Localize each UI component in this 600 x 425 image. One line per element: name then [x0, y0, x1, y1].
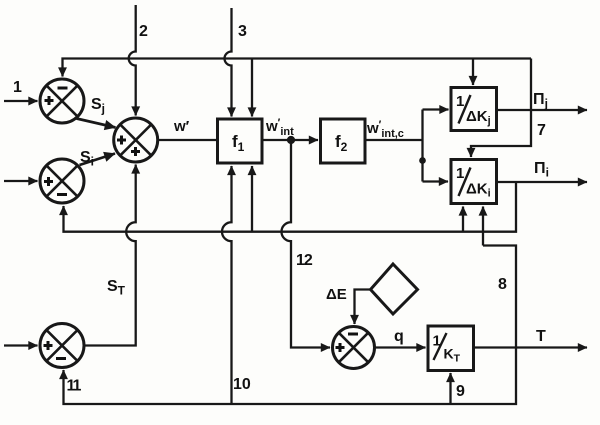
svg-text:12: 12 [296, 252, 313, 269]
wire: input line 3 with hop over bus into f1 top [225, 8, 232, 117]
diamond shape [371, 264, 418, 314]
svg-text:10: 10 [233, 376, 251, 393]
wire: line 10 from bottom bus with hop into f1 bottom [222, 166, 232, 404]
svg-text:7: 7 [537, 122, 546, 139]
node: small dot on branch vertical [420, 158, 424, 162]
wire: Pi_i feedback branch down, left along y=231.7 and up into S2 bottom [64, 182, 517, 232]
summing junction S1 (inputs 1, bus; output Sj) [40, 79, 84, 123]
wire: input arrow into summing junction S2 [4, 180, 38, 182]
svg-text:T: T [536, 328, 546, 345]
wire: top feedback bus with arrow into summing junction S1 [63, 59, 532, 77]
svg-text:w′int,c: w′int,c [366, 119, 404, 140]
svg-text:1: 1 [13, 79, 22, 96]
wire: line 12 from w'int dot down with hop into q junction [282, 140, 331, 348]
wire: T output arrow [474, 346, 588, 348]
svg-text:2: 2 [139, 23, 148, 40]
svg-text:q: q [394, 328, 404, 345]
summing junction S5 q (inputs 12, delta-E; output q) [333, 327, 375, 369]
wire: line 9 arrow up into 1/KT bottom [449, 373, 451, 404]
wire: branch arrow into 1/dKj left [423, 108, 449, 110]
wire: f1 output to f2 [262, 139, 318, 141]
block f2 [321, 119, 366, 163]
block 1/dKj [451, 88, 497, 131]
summing junction S2 (inputs left, feedback; output Si) [40, 159, 84, 203]
svg-text:11: 11 [67, 378, 82, 395]
wire: line 7 from bus down into 1/dKi top [471, 59, 531, 158]
node: junction dot on w'int line [288, 137, 294, 143]
svg-text:Sj: Sj [91, 96, 105, 116]
wire: tap up from feedback line into 1/dKi bottom [462, 207, 464, 232]
svg-text:9: 9 [456, 383, 465, 400]
svg-text:ΔE: ΔE [326, 286, 347, 303]
wire: f2 output w'int,c to branch [365, 139, 423, 141]
wire: q junction output to 1/KT [375, 346, 426, 348]
svg-text:Πi: Πi [534, 160, 549, 180]
wire: central junction output w' to f1 [158, 139, 217, 141]
svg-text:3: 3 [238, 23, 247, 40]
block 1/dKi [451, 160, 497, 204]
svg-text:w′int: w′int [265, 117, 294, 138]
svg-text:ΔKi: ΔKi [466, 181, 491, 200]
wire: branch arrow into 1/dKi left [423, 180, 449, 182]
wire: bus tap into 1/dKj top [472, 59, 474, 86]
summing junction S4 (inputs left, 11; output ST) [40, 324, 84, 368]
summing junction S3 central (inputs 2, Sj, Si, ST; output w') [114, 118, 158, 162]
wire: tap up from feedback line into f1 bottom [251, 166, 253, 232]
svg-text:8: 8 [498, 276, 507, 293]
wire: Sj arrow from S1 to central junction [77, 119, 116, 128]
svg-text:Si: Si [80, 149, 94, 169]
svg-text:ST: ST [107, 278, 126, 298]
wire: line 8 arrow up into 1/dKi bottom [482, 207, 484, 246]
wire: input line 2 with hop over bus into central summing junction [129, 5, 136, 116]
wire: ST line from S4 output up with hop into central junction bottom [84, 165, 136, 346]
block f1 [218, 119, 263, 163]
svg-text:w′: w′ [173, 118, 190, 135]
wire: branch vertical [421, 110, 423, 182]
svg-text:Πj: Πj [533, 91, 548, 111]
svg-text:1: 1 [456, 93, 464, 110]
svg-text:ΔKj: ΔKj [466, 108, 491, 127]
wire: delta-E line from diamond into q junction top [355, 290, 371, 325]
svg-text:1: 1 [456, 165, 464, 182]
wire: input arrow into summing junction S4 [4, 344, 38, 346]
wire: Si arrow from S2 to central junction [80, 154, 116, 166]
wire: Pi_i output arrow [497, 181, 588, 183]
wire: bus tap into f1 top [251, 59, 253, 117]
wire: Pi_j output arrow [497, 109, 588, 111]
wire: input 1 arrow [4, 100, 38, 102]
block 1/KT [428, 326, 474, 371]
wire: line 8 down and bottom bus into S4 junction [64, 246, 517, 405]
